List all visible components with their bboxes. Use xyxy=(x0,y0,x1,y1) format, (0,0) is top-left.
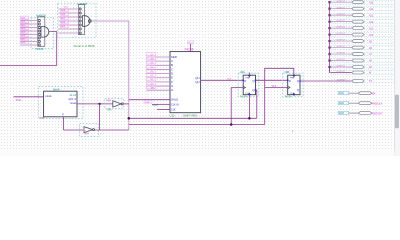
port row A12 xyxy=(328,20,394,24)
canvas background xyxy=(0,0,400,156)
svg-text:CLK: CLK xyxy=(272,86,277,88)
wire A16 input xyxy=(20,41,38,45)
svg-text:OUTPUT: OUTPUT xyxy=(336,66,345,68)
wire D0 input xyxy=(146,82,170,86)
svg-text:U5A: U5A xyxy=(107,108,112,111)
port row A14 xyxy=(328,7,394,11)
node rail B at U6A CLK xyxy=(230,123,233,126)
wire A16 input U3 xyxy=(59,21,80,25)
wire D1 input xyxy=(146,78,170,82)
wire CLK INH input xyxy=(144,100,170,104)
svg-text:OUTPUT: OUTPUT xyxy=(336,14,345,16)
svg-text:QH: QH xyxy=(195,80,199,84)
svg-text:CLK: CLK xyxy=(171,108,176,111)
svg-text:OUTPUT: OUTPUT xyxy=(336,7,345,9)
svg-text:CUP: CUP xyxy=(153,103,159,107)
svg-text:D: D xyxy=(289,79,291,83)
svg-text:RxD: RxD xyxy=(339,102,344,105)
wire CLK input xyxy=(59,7,80,9)
node rail A at U6A CLR xyxy=(248,117,251,120)
wire A18 input xyxy=(20,34,38,38)
svg-text:74S30: 74S30 xyxy=(35,47,44,51)
svg-text:PRE: PRE xyxy=(290,78,295,80)
svg-text:8x64: 8x64 xyxy=(53,88,60,92)
port row TX (from U6B) xyxy=(334,79,394,83)
svg-text:SIN: SIN xyxy=(151,88,155,90)
flip-flop U6B (7474) xyxy=(283,71,304,99)
svg-text:RxD: RxD xyxy=(339,92,344,95)
svg-text:CLK IN: CLK IN xyxy=(171,103,179,106)
port row A15 xyxy=(328,0,394,4)
svg-text:RxD: RxD xyxy=(339,112,344,115)
svg-text:SHIFT REG: SHIFT REG xyxy=(183,113,197,117)
wire A20 input xyxy=(20,27,38,31)
scrollbar thumb xyxy=(395,95,399,128)
svg-text:RX: RX xyxy=(372,91,376,95)
scrollbar right track xyxy=(395,0,400,156)
svg-text:XTAL: XTAL xyxy=(16,99,23,102)
svg-text:A15: A15 xyxy=(369,1,374,4)
wire QH to U6A D xyxy=(201,79,244,81)
wire XTAL input xyxy=(14,97,44,102)
port row RX xyxy=(338,91,375,95)
svg-text:RXDCLK: RXDCLK xyxy=(372,101,383,105)
bottom margin strip xyxy=(0,151,395,156)
port row W (bus corner) xyxy=(330,67,395,75)
port row RXDCLK xyxy=(338,101,382,105)
svg-text:A10: A10 xyxy=(369,34,374,37)
wire U6A Q to U6B D xyxy=(256,79,288,81)
wire clock rail A xyxy=(129,117,257,119)
svg-text:H: H xyxy=(171,88,173,92)
wire D6 input xyxy=(146,57,170,61)
power VCC label xyxy=(188,41,194,52)
svg-text:SH/LD: SH/LD xyxy=(171,99,178,102)
wire rail B up and PRE loop xyxy=(265,68,294,124)
wire A14 input U3 xyxy=(59,32,80,34)
wire U4A output to vertical xyxy=(123,103,129,105)
shift register U10 (74165) xyxy=(148,47,206,118)
svg-text:TX: TX xyxy=(369,80,372,83)
svg-text:U6B: U6B xyxy=(285,71,290,74)
svg-text:OUTPUT: OUTPUT xyxy=(336,53,345,55)
port row RXDOUT xyxy=(338,111,383,115)
svg-text:Serial in of 8545: Serial in of 8545 xyxy=(74,44,95,48)
svg-text:OUTPUT: OUTPUT xyxy=(336,27,345,29)
svg-text:NAND8: NAND8 xyxy=(78,2,88,6)
wire A17 input xyxy=(20,37,38,41)
wire D2 input xyxy=(146,74,170,78)
svg-text:CLK: CLK xyxy=(64,7,69,9)
svg-text:U10: U10 xyxy=(170,113,175,117)
svg-text:OUTPUT: OUTPUT xyxy=(336,33,345,35)
bus vertical right column xyxy=(329,2,331,72)
wire U1 q output xyxy=(77,103,113,105)
wire A18 input U3 xyxy=(59,13,80,17)
nand gate U3 (NAND with CLK and address inputs) xyxy=(58,2,97,38)
wire A23 input xyxy=(20,16,38,20)
wire D7 input xyxy=(146,53,170,57)
inverter U4B xyxy=(80,124,99,137)
svg-text:A13: A13 xyxy=(369,14,374,17)
wire D5 input xyxy=(146,61,170,65)
wire D3 input xyxy=(146,69,170,73)
port row A6 xyxy=(328,59,394,63)
wire A22 input xyxy=(20,20,38,24)
svg-text:CUP: CUP xyxy=(145,102,150,104)
wire U6B Q output to port xyxy=(300,80,352,82)
wire U6A PRE stub xyxy=(248,73,250,76)
node clock junction xyxy=(98,103,100,105)
wire A15 input U3 xyxy=(59,25,80,29)
port row A5 xyxy=(328,65,394,69)
svg-text:D: D xyxy=(244,79,246,83)
svg-text:A11: A11 xyxy=(369,27,374,30)
port row A10 xyxy=(328,33,394,37)
port row A8 xyxy=(328,46,394,50)
svg-text:OUTPUT: OUTPUT xyxy=(336,71,345,73)
wire U4B output to vertical xyxy=(95,129,129,131)
svg-text:74L74: 74L74 xyxy=(240,96,248,99)
wire U6A QB to rail corner xyxy=(256,90,257,118)
wire A19 input xyxy=(20,30,38,34)
wire A19 input U3 xyxy=(59,9,80,13)
wire U3 output down to rails xyxy=(91,21,129,130)
wire SH/LD from U3 vertical xyxy=(129,99,170,101)
svg-text:7404: 7404 xyxy=(84,134,90,136)
wire clock rail B xyxy=(129,124,265,126)
wire U1 bottom pin down xyxy=(64,117,84,130)
wire U6B CLK branch xyxy=(265,86,288,88)
svg-text:reset: reset xyxy=(70,101,76,105)
wire U6A CLR down to rail xyxy=(248,95,250,119)
flip-flop U6A (7474) xyxy=(238,71,259,99)
svg-text:OUTPUT: OUTPUT xyxy=(336,40,345,42)
oscillator U1 (8x64 clock divider) xyxy=(39,87,84,120)
svg-text:OUTPUT: OUTPUT xyxy=(336,20,345,22)
wire junction down to inverter row xyxy=(99,104,101,130)
svg-text:74165: 74165 xyxy=(184,47,193,51)
port row A9 xyxy=(328,39,394,43)
svg-text:74L74: 74L74 xyxy=(285,96,293,99)
svg-text:OUTPUT: OUTPUT xyxy=(336,46,345,48)
wire D4 input xyxy=(146,65,170,69)
svg-text:PRE: PRE xyxy=(246,78,251,80)
wire A17 input U3 xyxy=(59,17,80,21)
svg-text:7404: 7404 xyxy=(106,101,112,103)
svg-text:clock: clock xyxy=(45,94,52,98)
node rail A at U3 vertical xyxy=(128,117,131,120)
svg-text:A14: A14 xyxy=(369,8,374,11)
wire SIN input xyxy=(146,86,170,90)
wire CLK input U10 xyxy=(157,109,170,111)
port row A13 xyxy=(328,13,394,17)
wire U2 output to left edge xyxy=(0,32,57,66)
port row A7 xyxy=(328,52,394,56)
svg-text:A12: A12 xyxy=(369,21,374,24)
svg-text:OUTPUT: OUTPUT xyxy=(336,59,345,61)
inverter U4A xyxy=(105,99,124,112)
nand gate U2 (8-input NAND 74S30) xyxy=(31,14,54,51)
svg-text:U6A: U6A xyxy=(240,71,245,74)
wire U6A CLK input xyxy=(231,88,243,125)
svg-text:OUTPUT: OUTPUT xyxy=(336,1,345,3)
svg-text:max: max xyxy=(40,117,46,120)
svg-text:RXDOUT: RXDOUT xyxy=(372,111,383,115)
svg-text:OUTPUT: OUTPUT xyxy=(337,80,346,82)
wire A21 input xyxy=(20,23,38,27)
port row A11 xyxy=(328,26,394,30)
svg-text:CLK: CLK xyxy=(227,79,232,81)
